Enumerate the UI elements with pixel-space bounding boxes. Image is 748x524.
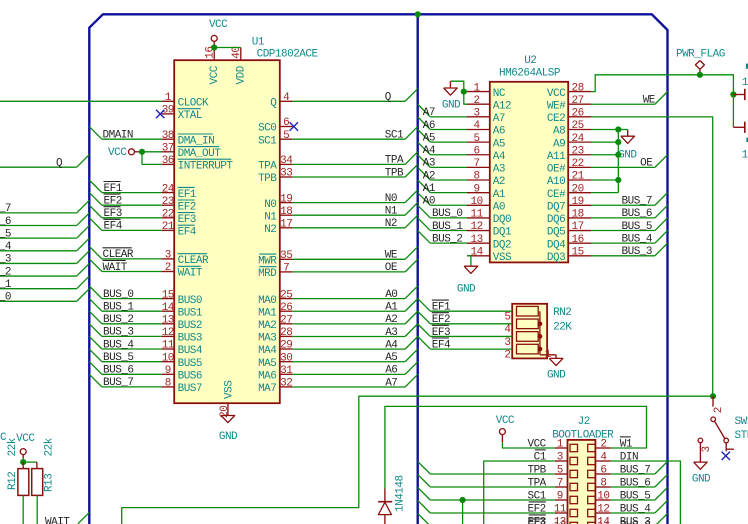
- svg-text:14: 14: [470, 246, 483, 258]
- resistor network RN2 body: [512, 304, 547, 359]
- svg-text:BUS_5: BUS_5: [103, 352, 134, 364]
- J2 right pins: [595, 447, 610, 449]
- svg-text:6: 6: [600, 465, 606, 477]
- wire Q U1-right to bus: [292, 100, 405, 102]
- svg-text:DQ4: DQ4: [547, 239, 566, 251]
- svg-text:3: 3: [504, 337, 510, 349]
- svg-text:CDP1802ACE: CDP1802ACE: [257, 49, 319, 61]
- RN2 internal resistors: [517, 306, 539, 316]
- svg-text:A7: A7: [385, 377, 397, 389]
- svg-text:5: 5: [504, 312, 510, 324]
- svg-text:36: 36: [162, 155, 174, 167]
- svg-text:BUS_6: BUS_6: [622, 208, 653, 220]
- svg-text:15: 15: [571, 246, 583, 258]
- svg-text:27: 27: [571, 95, 583, 107]
- svg-text:U2: U2: [524, 55, 536, 67]
- U1 right pins (stubs, numbers, names): [280, 100, 293, 102]
- svg-text:DQ5: DQ5: [547, 227, 565, 239]
- svg-text:A4: A4: [423, 145, 436, 157]
- svg-text:1: 1: [742, 77, 748, 89]
- svg-text:TPA: TPA: [385, 155, 404, 167]
- svg-text:MA7: MA7: [258, 383, 276, 395]
- svg-text:CLOCK: CLOCK: [178, 98, 209, 110]
- svg-text:VCC: VCC: [209, 19, 228, 31]
- svg-text:OE#: OE#: [547, 164, 566, 176]
- svg-text:26: 26: [280, 302, 292, 314]
- IC U1 CDP1802ACE body: [174, 60, 280, 403]
- svg-text:VSS: VSS: [493, 252, 512, 264]
- svg-text:A1: A1: [385, 302, 398, 314]
- svg-text:12: 12: [597, 504, 609, 516]
- svg-text:1: 1: [474, 82, 481, 94]
- R13 bottom lead: [36, 495, 38, 524]
- svg-text:10: 10: [162, 352, 174, 364]
- wire A4 to U2 pin 6: [418, 142, 431, 155]
- svg-text:40: 40: [231, 46, 243, 58]
- svg-text:22K: 22K: [553, 322, 572, 334]
- svg-text:11: 11: [162, 340, 175, 352]
- wire N2 U1-right to bus: [292, 227, 405, 229]
- svg-text:28: 28: [280, 327, 292, 339]
- svg-text:C: C: [0, 432, 7, 444]
- wire N1 U1-right to bus: [292, 214, 405, 216]
- svg-text:Q: Q: [56, 158, 63, 170]
- svg-text:R13: R13: [44, 474, 56, 492]
- svg-text:BUS_3: BUS_3: [103, 327, 134, 339]
- svg-text:23: 23: [162, 196, 174, 208]
- wire WE U1-right to bus: [292, 258, 405, 260]
- svg-text:A6: A6: [493, 126, 505, 138]
- svg-text:MA5: MA5: [258, 358, 276, 370]
- svg-text:A10: A10: [547, 176, 565, 188]
- svg-text:WAIT: WAIT: [103, 262, 128, 274]
- svg-text:A2: A2: [423, 170, 435, 182]
- svg-text:EF2: EF2: [432, 314, 450, 326]
- svg-text:R12: R12: [7, 472, 19, 490]
- svg-text:A1: A1: [493, 189, 506, 201]
- svg-text:17: 17: [280, 219, 292, 231]
- svg-text:_6: _6: [0, 216, 11, 228]
- svg-text:A8: A8: [553, 126, 565, 138]
- wire EF1 with bus entry: [89, 180, 102, 193]
- svg-text:N2: N2: [264, 224, 276, 236]
- svg-text:WE: WE: [385, 250, 398, 262]
- svg-text:2: 2: [474, 95, 480, 107]
- svg-text:2: 2: [713, 407, 725, 413]
- svg-text:BUS_0: BUS_0: [103, 289, 134, 301]
- svg-text:GND: GND: [442, 99, 461, 111]
- svg-text:N0: N0: [385, 193, 397, 205]
- wire BUS_0 with bus entry: [89, 286, 102, 299]
- svg-text:A0: A0: [423, 196, 435, 208]
- svg-text:_0: _0: [0, 292, 11, 304]
- svg-text:A1: A1: [423, 183, 436, 195]
- svg-text:HM6264ALSP: HM6264ALSP: [499, 68, 561, 80]
- svg-text:1: 1: [165, 92, 172, 104]
- svg-text:24: 24: [162, 183, 175, 195]
- svg-text:31: 31: [280, 365, 293, 377]
- svg-text:_5: _5: [0, 228, 11, 240]
- wire BUS_1 with bus entry: [89, 299, 102, 312]
- wire W1 loop to diode: [385, 406, 647, 488]
- wire A1 to U2 pin 9: [418, 180, 431, 193]
- svg-text:STEP: STEP: [735, 430, 748, 442]
- junction at U2 pin 1: [461, 89, 467, 95]
- svg-text:DQ0: DQ0: [493, 214, 511, 226]
- svg-text:GND: GND: [618, 150, 637, 162]
- svg-text:34: 34: [280, 155, 293, 167]
- U1 pin 20 VSS bottom stub: [227, 403, 229, 415]
- svg-text:9: 9: [557, 491, 563, 503]
- svg-text:10: 10: [470, 196, 482, 208]
- svg-text:U1: U1: [252, 36, 265, 48]
- svg-text:VCC: VCC: [209, 65, 221, 84]
- wire EF4 with bus entry: [89, 218, 102, 231]
- wire BUS_6 with bus entry: [89, 362, 102, 375]
- svg-text:SW1: SW1: [735, 416, 748, 428]
- svg-text:27: 27: [280, 315, 292, 327]
- svg-text:EF3: EF3: [432, 327, 450, 339]
- wire A4 U1 MA4 to bus: [292, 348, 405, 350]
- wire TPB U1-right to bus: [292, 176, 405, 178]
- wires EF1..EF4 from bus to RN2: [418, 299, 431, 312]
- svg-text:N2: N2: [385, 218, 397, 230]
- svg-text:MRD: MRD: [258, 268, 277, 280]
- wire TPA to J2 pin7: [418, 474, 431, 487]
- svg-text:BUS2: BUS2: [178, 320, 202, 332]
- wire A5 to U2 pin 5: [418, 130, 431, 143]
- junction at U1 pin16: [211, 44, 217, 50]
- svg-text:25: 25: [280, 289, 292, 301]
- svg-text:35: 35: [280, 250, 292, 262]
- junctions on ground rail: [615, 126, 621, 132]
- wire A0 to U2 pin 10: [418, 193, 431, 206]
- svg-text:DMAIN: DMAIN: [103, 130, 134, 142]
- wire EF3 with bus entry: [89, 205, 102, 218]
- svg-text:BUS_7: BUS_7: [103, 377, 134, 389]
- wire J2 BUS_3 entry (clipped): [655, 513, 668, 524]
- wire A2 to U2 pin 8: [418, 167, 431, 180]
- svg-text:6: 6: [283, 117, 289, 129]
- junction at switch top: [710, 393, 716, 399]
- U1 pin 16 VCC top stub: [213, 48, 215, 61]
- IC U2 HM6264ALSP body: [490, 82, 568, 263]
- svg-text:2: 2: [600, 439, 606, 451]
- svg-text:A6: A6: [423, 120, 435, 132]
- wire CLOCK from left edge: [0, 100, 162, 102]
- svg-text:_2: _2: [0, 266, 11, 278]
- svg-text:GND: GND: [547, 369, 566, 381]
- svg-text:19: 19: [280, 193, 292, 205]
- wire BUS_4 with bus entry: [89, 336, 102, 349]
- svg-text:A3: A3: [493, 164, 505, 176]
- wire SC1 branch down: [462, 500, 464, 524]
- junction at R12 top: [20, 459, 26, 465]
- svg-text:16: 16: [571, 234, 583, 246]
- wire A7 U1 MA7 to bus: [292, 386, 405, 388]
- resistor R12 body: [22, 462, 24, 469]
- R12 bottom lead: [22, 495, 24, 524]
- svg-text:3: 3: [165, 250, 171, 262]
- wire SC1 to J2 pin9: [418, 487, 431, 500]
- wire OE U1-right to bus: [292, 271, 405, 273]
- no-connect X on U1 SC0 pin 6: [290, 122, 298, 130]
- svg-text:WE#: WE#: [547, 100, 566, 112]
- svg-text:5: 5: [283, 130, 289, 142]
- svg-text:3: 3: [557, 452, 563, 464]
- wire BUS_3 with bus entry: [89, 324, 102, 337]
- wire BUS_2 with bus entry: [89, 311, 102, 324]
- wire U2 VCC pin28 to PWR_FLAG and caps: [591, 75, 733, 128]
- svg-text:11: 11: [554, 504, 567, 516]
- wire A5 U1 MA5 to bus: [292, 361, 405, 363]
- svg-text:21: 21: [162, 221, 175, 233]
- wire C1 to J2 pin3: [484, 461, 555, 524]
- wire VCC to R12/R13: [22, 458, 24, 462]
- svg-text:A6: A6: [385, 365, 397, 377]
- U1 pin 40 VDD top stub: [240, 48, 242, 61]
- svg-text:BUS_5: BUS_5: [622, 221, 653, 233]
- svg-text:29: 29: [280, 340, 292, 352]
- svg-text:N1: N1: [264, 211, 277, 223]
- wire DMAIN with bus entry: [89, 127, 102, 140]
- svg-text:30: 30: [280, 352, 292, 364]
- svg-text:A0: A0: [385, 289, 397, 301]
- wire A3 U1 MA3 to bus: [292, 335, 405, 337]
- svg-text:1: 1: [557, 439, 564, 451]
- svg-text:4: 4: [504, 324, 511, 336]
- svg-text:EF3: EF3: [104, 208, 122, 220]
- svg-text:25: 25: [571, 120, 583, 132]
- wire VCC to pins 37/36: [139, 151, 162, 153]
- wires J2 BUS_7..BUS_4 to right bus: [611, 473, 655, 475]
- svg-text:A4: A4: [493, 151, 506, 163]
- svg-text:11: 11: [470, 209, 483, 221]
- wire WAIT with bus entry: [89, 259, 102, 272]
- svg-text:13: 13: [470, 234, 482, 246]
- svg-text:18: 18: [280, 206, 292, 218]
- svg-text:VCC: VCC: [547, 88, 566, 100]
- svg-text:OE: OE: [385, 262, 398, 274]
- svg-text:21: 21: [571, 171, 584, 183]
- svg-text:5: 5: [557, 465, 563, 477]
- wire A2 U1 MA2 to bus: [292, 323, 405, 325]
- svg-text:18: 18: [571, 209, 583, 221]
- svg-text:19: 19: [571, 196, 583, 208]
- svg-text:BUS7: BUS7: [178, 383, 202, 395]
- RN2 pin1 to ground: [540, 354, 556, 356]
- svg-text:CE2: CE2: [547, 113, 565, 125]
- svg-text:12: 12: [470, 221, 482, 233]
- RN2 common rail: [539, 311, 541, 355]
- svg-text:CE#: CE#: [547, 189, 566, 201]
- diode D 1N4148: [384, 489, 386, 502]
- svg-text:TPB: TPB: [258, 173, 277, 185]
- svg-text:VDD: VDD: [236, 65, 248, 84]
- svg-text:OE: OE: [640, 158, 653, 170]
- svg-text:MWR: MWR: [258, 256, 277, 268]
- U1 left pins (stubs, numbers, names): [162, 100, 175, 102]
- wire BUS_5 with bus entry: [89, 349, 102, 362]
- wire WE from U2 pin27 to right bus: [591, 103, 655, 105]
- svg-text:VSS: VSS: [224, 380, 236, 399]
- wire SC1 U1-right to bus: [292, 138, 405, 140]
- svg-text:BUS_7: BUS_7: [622, 196, 653, 208]
- svg-text:A5: A5: [493, 138, 505, 150]
- svg-text:_7: _7: [0, 203, 11, 215]
- svg-text:8: 8: [600, 478, 606, 490]
- wire A1 U1 MA1 to bus: [292, 310, 405, 312]
- junction at PWR_FLAG: [697, 72, 703, 78]
- svg-text:DQ7: DQ7: [547, 201, 565, 213]
- wire EF2 to J2 pin11: [418, 500, 431, 513]
- svg-text:TPA: TPA: [258, 161, 277, 173]
- wire WAIT bottom entry into bus: [78, 512, 89, 523]
- svg-text:5: 5: [474, 133, 480, 145]
- svg-text:XTAL: XTAL: [178, 110, 202, 122]
- wire A7 to U2 pin 3: [418, 104, 431, 117]
- svg-text:WAIT: WAIT: [178, 268, 203, 280]
- svg-text:J2: J2: [578, 416, 590, 428]
- svg-text:RN2: RN2: [553, 307, 571, 319]
- switch pin 3 to ground: [698, 438, 703, 443]
- svg-text:SC1: SC1: [258, 135, 277, 147]
- svg-text:4: 4: [474, 120, 481, 132]
- svg-text:MA6: MA6: [258, 371, 276, 383]
- svg-text:EF4: EF4: [432, 339, 451, 351]
- svg-text:CLEAR: CLEAR: [103, 249, 134, 261]
- junction on SC1 wire: [460, 497, 466, 503]
- svg-text:24: 24: [571, 133, 584, 145]
- svg-text:BUS_3: BUS_3: [620, 520, 651, 524]
- ground at U2 VSS: [464, 266, 478, 273]
- capacitor at right edge (cut) 2: [733, 126, 744, 128]
- svg-text:MA0: MA0: [258, 295, 276, 307]
- svg-text:EF1: EF1: [104, 183, 123, 195]
- svg-text:23: 23: [571, 145, 583, 157]
- svg-text:32: 32: [280, 378, 292, 390]
- bus junction dot: [415, 11, 421, 17]
- svg-text:_3: _3: [0, 254, 11, 266]
- wire Q from left edge into bus: [0, 166, 77, 168]
- wire TPB to J2 pin5: [418, 461, 431, 474]
- svg-text:3: 3: [474, 108, 480, 120]
- svg-text:26: 26: [571, 108, 583, 120]
- svg-text:SC0: SC0: [258, 123, 276, 135]
- svg-text:2: 2: [165, 262, 171, 274]
- svg-text:3: 3: [701, 446, 713, 452]
- svg-text:4: 4: [600, 452, 607, 464]
- svg-text:WE: WE: [643, 95, 656, 107]
- no-connect X on U1 XTAL pin 39: [156, 110, 164, 118]
- svg-text:A12: A12: [493, 100, 511, 112]
- svg-text:8: 8: [165, 378, 171, 390]
- wires from left edge into bus (_7 ... _0): [0, 212, 77, 214]
- svg-text:GND: GND: [457, 284, 476, 296]
- svg-text:13: 13: [554, 520, 566, 524]
- svg-text:EF3: EF3: [527, 520, 545, 524]
- svg-text:A3: A3: [423, 158, 435, 170]
- svg-text:BUS_4: BUS_4: [103, 339, 134, 351]
- svg-text:Q: Q: [270, 98, 277, 110]
- svg-text:22k: 22k: [7, 437, 19, 456]
- svg-text:DMA_IN: DMA_IN: [178, 135, 215, 147]
- svg-text:37: 37: [162, 143, 174, 155]
- wire N0 U1-right to bus: [292, 202, 405, 204]
- J2 left pins: [555, 447, 568, 449]
- svg-text:CLEAR: CLEAR: [178, 255, 209, 267]
- svg-text:12: 12: [162, 327, 174, 339]
- wire EF2 with bus entry: [89, 193, 102, 206]
- svg-text:1: 1: [742, 150, 748, 162]
- svg-text:BUS0: BUS0: [178, 295, 202, 307]
- switch SW STEP: [712, 396, 714, 406]
- svg-text:22: 22: [162, 209, 174, 221]
- svg-text:EF4: EF4: [104, 221, 123, 233]
- svg-text:DQ2: DQ2: [493, 239, 511, 251]
- svg-text:A11: A11: [547, 151, 566, 163]
- wire GND to U2 pins 1 and 2: [450, 81, 467, 104]
- wire CLEAR with bus entry: [89, 246, 102, 259]
- svg-text:BUS4: BUS4: [178, 345, 203, 357]
- svg-text:VCC: VCC: [108, 147, 127, 159]
- bus vertical center: [417, 14, 419, 524]
- svg-text:INTERRUPT: INTERRUPT: [178, 161, 234, 173]
- svg-text:BUS_1: BUS_1: [103, 302, 134, 314]
- no-connect X at switch: [722, 452, 730, 460]
- svg-text:BUS_3: BUS_3: [622, 246, 653, 258]
- svg-text:A2: A2: [385, 314, 397, 326]
- svg-text:7: 7: [557, 478, 563, 490]
- wire OE from U2 pin22 to right bus: [591, 166, 655, 168]
- svg-text:BUS6: BUS6: [178, 371, 202, 383]
- svg-text:DQ3: DQ3: [547, 252, 565, 264]
- svg-text:A4: A4: [385, 339, 398, 351]
- wire DIN down at right: [611, 461, 681, 524]
- svg-text:BUS_2: BUS_2: [103, 314, 134, 326]
- svg-text:A2: A2: [493, 176, 505, 188]
- svg-text:EF1: EF1: [178, 189, 197, 201]
- U2 left pins: [467, 91, 490, 93]
- svg-text:N0: N0: [264, 199, 276, 211]
- svg-text:7: 7: [283, 263, 289, 275]
- wires BUS_7..BUS_3 from U2 DQ pins to right bus: [591, 204, 655, 206]
- svg-text:EF2: EF2: [104, 196, 122, 208]
- svg-text:9: 9: [474, 183, 480, 195]
- svg-text:22: 22: [571, 158, 583, 170]
- svg-text:BUS3: BUS3: [178, 333, 202, 345]
- wire BUS_2 to U2 pin 13: [418, 231, 431, 244]
- svg-text:BUS1: BUS1: [178, 307, 203, 319]
- svg-text:20: 20: [571, 183, 583, 195]
- svg-text:DQ1: DQ1: [493, 227, 512, 239]
- svg-text:14: 14: [597, 520, 610, 524]
- svg-text:EF4: EF4: [178, 227, 197, 239]
- wire BUS_1 to U2 pin 12: [418, 218, 431, 231]
- svg-text:GND: GND: [692, 474, 711, 486]
- wire VCC to pin40: [214, 47, 241, 49]
- wire CE2 from U2 pin26 down to switch: [591, 117, 713, 396]
- svg-text:Q: Q: [385, 92, 392, 104]
- svg-text:PWR_FLAG: PWR_FLAG: [676, 49, 725, 61]
- capacitor at right edge (cut) 1: [733, 94, 744, 96]
- wire EF3 to J2 pin13 (clipped): [418, 513, 431, 524]
- resistor R13 body: [36, 462, 38, 469]
- bus main ring (left/top) and verticals: [89, 14, 667, 524]
- svg-text:BUS5: BUS5: [178, 358, 202, 370]
- svg-text:SC1: SC1: [385, 130, 404, 142]
- svg-text:15: 15: [162, 289, 174, 301]
